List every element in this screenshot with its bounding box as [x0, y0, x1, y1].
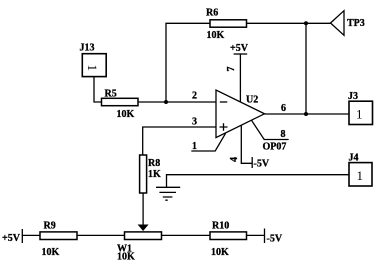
wire output pin 6 to J3: [265, 113, 350, 115]
wire R8 down to W1 wiper: [142, 193, 144, 225]
wire J13 to R5: [94, 77, 102, 102]
svg-text:10K: 10K: [117, 109, 135, 120]
svg-text:3: 3: [192, 117, 197, 128]
wire junction down to output net: [305, 23, 307, 114]
svg-text:1K: 1K: [148, 169, 161, 180]
wire pin 4 to -5V: [241, 125, 252, 163]
wire ground to J4: [167, 175, 350, 188]
svg-text:OP07: OP07: [263, 142, 287, 153]
minus input mark: [220, 101, 228, 103]
svg-text:J3: J3: [348, 91, 358, 102]
svg-text:10K: 10K: [207, 30, 225, 41]
svg-text:R10: R10: [212, 221, 229, 232]
svg-text:6: 6: [281, 103, 286, 114]
resistor R9: [40, 232, 77, 240]
svg-text:R8: R8: [148, 158, 160, 169]
svg-text:1: 1: [85, 65, 100, 72]
svg-text:-5V: -5V: [267, 234, 283, 245]
svg-text:10K: 10K: [117, 252, 135, 263]
plus input mark: [220, 123, 228, 131]
wire op-amp pin 3 to R8: [143, 127, 216, 155]
resistor R10: [210, 232, 247, 240]
power +5V bar: [234, 53, 248, 55]
wire +5V to R9: [22, 234, 40, 236]
svg-text:R9: R9: [44, 221, 56, 232]
svg-text:1: 1: [192, 141, 197, 152]
svg-text:U2: U2: [246, 95, 258, 106]
power +5V port (bottom left): [21, 229, 23, 243]
resistor R8: [140, 155, 147, 193]
ground: [156, 187, 180, 200]
svg-text:10K: 10K: [42, 247, 60, 258]
svg-text:1: 1: [357, 168, 364, 183]
svg-text:R5: R5: [105, 89, 117, 100]
wire W1 to R10: [162, 234, 211, 236]
wiper arrowhead: [138, 225, 149, 232]
pin 8 stub of U2: [252, 120, 289, 139]
connector J4: [349, 163, 372, 186]
svg-text:J13: J13: [80, 42, 95, 53]
resistor R6: [210, 20, 247, 27]
wire R10 to -5V: [247, 234, 265, 236]
svg-text:R6: R6: [206, 7, 218, 18]
wire R6 right to TP3: [247, 22, 331, 24]
svg-text:4: 4: [229, 157, 240, 162]
wire R9 to W1: [77, 234, 125, 236]
wire +5V to pin 7: [239, 54, 241, 102]
node junction at TP3 branch: [304, 21, 308, 25]
connector J13: [82, 54, 106, 77]
svg-text:-5V: -5V: [254, 159, 270, 170]
svg-text:2: 2: [192, 91, 197, 102]
svg-text:10K: 10K: [211, 247, 229, 258]
op-amp U2: [216, 90, 265, 138]
svg-text:+5V: +5V: [2, 233, 21, 244]
test point TP3: [331, 11, 345, 36]
svg-text:7: 7: [226, 67, 237, 72]
pin 1 stub of U2: [191, 133, 225, 151]
power -5V bar (op-amp): [251, 157, 253, 168]
node junction R6/R5/pin2: [164, 100, 168, 104]
power -5V port (bottom right): [264, 229, 266, 244]
connector J3: [349, 101, 373, 124]
svg-text:8: 8: [281, 129, 286, 140]
potentiometer W1: [125, 232, 162, 240]
svg-text:+5V: +5V: [230, 43, 249, 54]
svg-text:TP3: TP3: [347, 18, 365, 29]
resistor R5: [102, 98, 139, 105]
svg-text:J4: J4: [349, 153, 359, 164]
wire R6 left to pin2 net: [166, 23, 210, 102]
node junction output/J3: [304, 112, 308, 116]
svg-text:1: 1: [356, 107, 363, 122]
wire R5 to op-amp pin 2: [138, 101, 216, 103]
